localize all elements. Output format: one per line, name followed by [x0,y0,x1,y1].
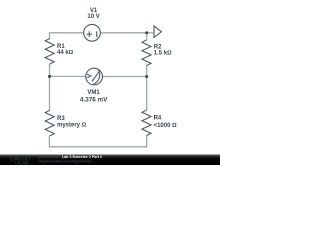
wire top-right segment [100,32,146,34]
svg-text:R2: R2 [154,44,162,50]
node junction right rail [145,75,148,78]
resistor R4 [142,110,151,136]
node junction left rail [48,75,51,78]
node junction top-right [145,31,148,34]
svg-text:10 V: 10 V [87,14,99,20]
wire right rail upper [146,33,148,40]
wire top-left segment [50,33,84,39]
resistor R1 [45,39,54,65]
voltage source V1 [84,24,101,41]
svg-text:≡≈LAB: ≡≈LAB [15,161,29,165]
svg-text:http://circuitlab.com/c/hfg7eb: http://circuitlab.com/c/hfg7ebm2ub [39,159,92,163]
wire voltmeter left [50,75,86,77]
watermark bar [0,154,220,165]
svg-text:44 kΩ: 44 kΩ [57,50,74,56]
svg-text:R4: R4 [154,115,162,121]
CircuitLab logo [10,157,31,166]
svg-text:1.5 kΩ: 1.5 kΩ [154,51,172,57]
output flag [154,26,161,38]
wire voltmeter right [102,76,146,78]
wire right rail middle [146,66,148,110]
resistor R2 [142,40,151,66]
wire left rail middle [49,64,51,110]
svg-text:R3: R3 [57,116,65,122]
resistor R3 [45,110,54,136]
voltmeter VM1 [86,68,103,85]
svg-text:mystery Ω: mystery Ω [57,123,87,129]
svg-text:4.376 mV: 4.376 mV [80,97,108,104]
svg-text:<1000 Ω: <1000 Ω [154,123,178,129]
wire flag stub [147,32,154,34]
wire right rail lower + bottom wire + left rail lower [49,136,146,147]
svg-text:VM1: VM1 [87,90,100,96]
